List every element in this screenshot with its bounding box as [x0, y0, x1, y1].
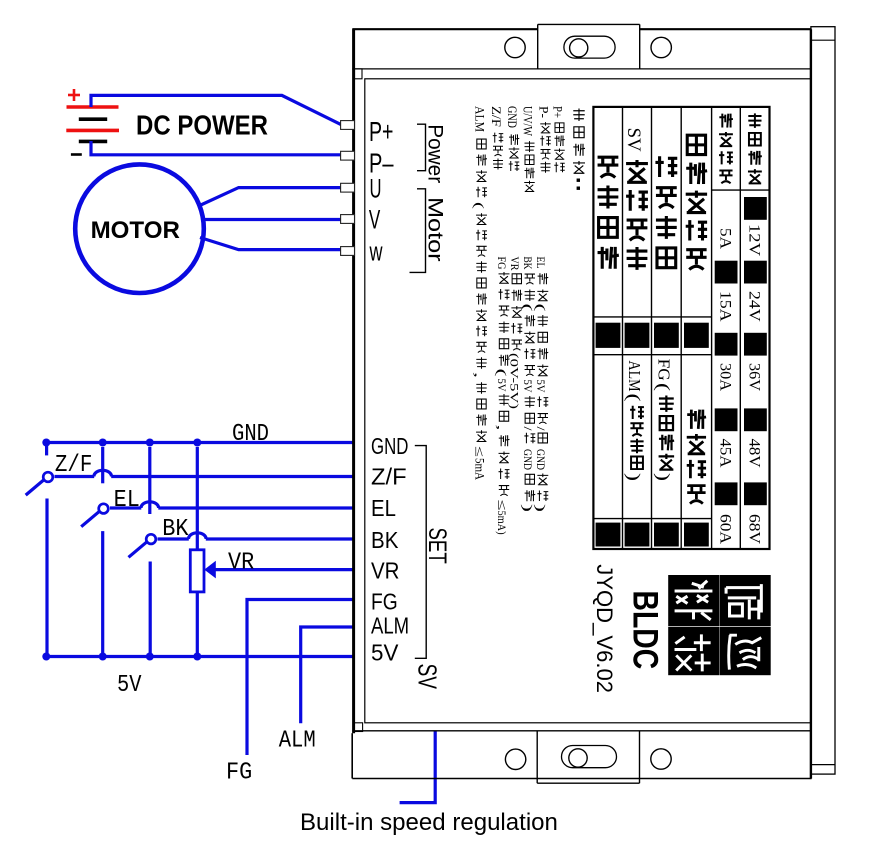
svg-text:15A: 15A: [716, 291, 733, 322]
label FG: [226, 760, 252, 787]
annotation line: BK brake: [520, 257, 535, 513]
svg-text:Built-in speed regulation: Built-in speed regulation: [300, 809, 558, 836]
table cell: ALM run indicator: [623, 361, 644, 482]
svg-text:GND: GND: [521, 449, 535, 470]
svg-text:,: ,: [472, 372, 487, 378]
pin label V: [369, 204, 380, 234]
top slot: [564, 36, 615, 58]
svg-text:24V: 24V: [745, 291, 762, 322]
potentiometer VR lower wire to 5V bus: [196, 592, 199, 657]
table header cell: overvoltage protection (4 hanzi): [598, 157, 619, 268]
pin label VR: [371, 557, 400, 583]
svg-text:5V: 5V: [371, 639, 399, 665]
svg-text:ALM: ALM: [625, 361, 644, 392]
pin label U: [370, 174, 382, 204]
annotation line: P- power negative: [537, 106, 552, 173]
label GND net: [232, 421, 269, 448]
svg-text:5V: 5V: [495, 379, 509, 392]
wire GND bus: [46, 441, 352, 444]
wire battery positive to pin P+: [91, 95, 342, 124]
svg-text:36V: 36V: [745, 363, 762, 392]
label Built-in speed regulation: [300, 809, 558, 836]
svg-text:30A: 30A: [716, 363, 733, 392]
spec table outer border: [593, 107, 769, 549]
pin label 5V: [371, 639, 399, 665]
top-left panel notch: [355, 69, 363, 79]
svg-text:SET: SET: [423, 528, 451, 564]
terminal pin P-: [341, 151, 355, 160]
label Power (rotated): [423, 124, 446, 183]
table header cell: SV built-in speed ctl (SV + 4 hanzi): [623, 128, 648, 270]
top mounting hole left: [505, 37, 525, 57]
switch S3 blade (open): [129, 542, 147, 558]
annotation line: U/V/W motor phases: [521, 106, 536, 191]
switch S1 contact ring: [43, 472, 53, 482]
svg-text:FG: FG: [371, 588, 398, 614]
spec table column lines: [623, 107, 741, 549]
battery negative terminal minus sign: [71, 153, 82, 156]
svg-text:BK: BK: [371, 527, 399, 553]
controller bottom mounting tab: [537, 731, 639, 783]
svg-text:): ): [623, 473, 644, 481]
svg-text:(: (: [495, 369, 510, 377]
wire EL to controller pin: [110, 502, 353, 508]
switch S3 BK: stub from GND bus: [148, 447, 151, 514]
svg-text:EL: EL: [371, 495, 396, 521]
pin label ALM: [371, 613, 409, 639]
junction node J2: [99, 439, 107, 447]
annotation line: EL enable: [533, 257, 548, 513]
switch S2 EL: stub from GND bus: [101, 447, 104, 483]
svg-text:w: w: [369, 236, 383, 266]
bottom band marks (4 cols): [596, 523, 709, 547]
brand logo 2x2 block (white hanzi on black): [668, 575, 771, 675]
annotation line: ALM fault indication: [472, 106, 488, 481]
svg-text:/: /: [521, 427, 535, 432]
svg-text:5V: 5V: [117, 672, 142, 699]
annotation line: GND signal ground: [505, 106, 520, 171]
switch S2 lower wire to 5V bus: [101, 531, 104, 656]
bottom mounting hole right: [651, 749, 671, 769]
annotation line: VR external speed input: [507, 257, 522, 410]
svg-text:68V: 68V: [745, 514, 762, 545]
pin label FG: [371, 588, 398, 614]
wire 5V bus: [46, 655, 352, 658]
svg-text:BK: BK: [521, 257, 535, 270]
svg-text:Z/F: Z/F: [371, 463, 407, 489]
wire motor phase V: [204, 218, 341, 221]
label ALM: [279, 728, 316, 755]
svg-text:SV: SV: [623, 128, 644, 152]
junction node J8: [193, 653, 201, 661]
svg-text:EL: EL: [114, 487, 140, 514]
battery plate 2 short black: [79, 117, 107, 121]
inner label panel: [365, 79, 811, 723]
svg-text:P-: P-: [537, 106, 552, 118]
table header cell: reverse-polarity protection (5 hanzi): [686, 135, 707, 269]
svg-text:GND: GND: [371, 433, 408, 459]
switch S3 contact ring: [146, 534, 156, 544]
junction node J3: [146, 439, 154, 447]
battery plate 3 long red: [66, 129, 119, 133]
pin label BK: [371, 527, 399, 553]
callout wire built-in speed regulation: [400, 732, 436, 803]
pin label Z/F: [371, 463, 407, 489]
svg-text:BLDC: BLDC: [626, 591, 665, 670]
battery plate 4 short black: [79, 140, 107, 144]
svg-text:45A: 45A: [716, 439, 733, 469]
svg-text:≤: ≤: [495, 500, 509, 511]
annotation line: P+ power positive: [551, 106, 566, 172]
middle band marks (4 cols): [596, 323, 709, 348]
switch S1 Z/F: stub from GND bus: [45, 443, 48, 456]
svg-text:GND: GND: [232, 421, 269, 448]
terminal pin P+: [341, 121, 355, 130]
terminal pin V: [341, 215, 355, 224]
bottom slot: [562, 746, 617, 768]
switch S1 lower wire to 5V bus: [45, 499, 48, 657]
svg-text:U: U: [370, 174, 382, 204]
label SET (rotated): [423, 528, 451, 564]
label JYQD_V6.02 (rotated): [592, 564, 617, 693]
label SV (rotated): [413, 664, 443, 690]
label Z/F: [55, 452, 93, 479]
current column marks and values: [715, 228, 738, 545]
label EL: [114, 487, 140, 514]
label Motor (rotated): [423, 197, 446, 262]
svg-text:P+: P+: [369, 116, 394, 147]
svg-text:(: (: [652, 383, 673, 391]
svg-text:Power: Power: [423, 124, 446, 183]
pin label GND: [371, 433, 408, 459]
switch S2 blade (open): [81, 511, 99, 527]
label MOTOR: [91, 217, 180, 244]
DIN rail flange right: [811, 27, 835, 774]
svg-text:/: /: [534, 427, 548, 432]
svg-text:,: ,: [495, 425, 510, 431]
controller top mounting tab: [538, 24, 640, 69]
svg-text:DC POWER: DC POWER: [136, 110, 268, 141]
svg-text:ALM: ALM: [473, 106, 488, 132]
bottom slot screw: [569, 749, 587, 767]
battery plate 1 long red: [67, 105, 119, 109]
svg-text:ALM: ALM: [279, 728, 316, 755]
svg-text:5A: 5A: [716, 228, 733, 250]
terminal pin W: [341, 247, 355, 256]
junction node J6: [99, 653, 107, 661]
spec table bottom band line (left 4 cols): [593, 518, 711, 520]
wire ALM from controller pin: [301, 627, 353, 723]
wire Z/F to controller pin: [55, 470, 353, 476]
table header cell: max current (4 hanzi): [719, 114, 733, 184]
svg-text:SV: SV: [413, 664, 443, 690]
annotation title: wiring instructions (4 hanzi + colon): [573, 108, 585, 189]
svg-text:48V: 48V: [745, 439, 762, 469]
svg-text:): ): [652, 473, 673, 481]
terminal pin U: [341, 183, 355, 192]
svg-text:Motor: Motor: [423, 197, 446, 262]
svg-text:GND: GND: [505, 106, 520, 128]
controller box outer body: [352, 29, 811, 778]
svg-text:JYQD_V6.02: JYQD_V6.02: [592, 564, 617, 693]
wire motor phase U: [198, 188, 341, 207]
svg-text:≤: ≤: [473, 446, 487, 457]
pin label P-: [369, 147, 394, 178]
bracket Power group: [417, 124, 426, 171]
junction node J1: [42, 439, 50, 447]
svg-text:5V: 5V: [521, 380, 535, 393]
table cell: undervoltage protection (4 hanzi): [687, 410, 706, 504]
potentiometer VR wiper arrow: [204, 561, 216, 579]
wire FG from controller pin: [247, 600, 353, 756]
annotation line: Z/F direction: [489, 106, 504, 170]
bracket SET group: [415, 446, 426, 659]
wire VR wiper to controller pin: [215, 568, 353, 571]
svg-text:ALM: ALM: [371, 613, 409, 639]
bracket Motor group: [410, 189, 426, 273]
wire motor phase W: [200, 238, 341, 250]
svg-text:Z/F: Z/F: [489, 106, 504, 127]
svg-text:(: (: [520, 304, 535, 312]
label BK: [162, 516, 189, 543]
junction node J4: [193, 439, 201, 447]
svg-text:(: (: [472, 202, 487, 209]
top slot screw: [570, 39, 588, 57]
switch S3 lower wire to 5V bus: [149, 562, 152, 657]
table header cell: temperature protection (4 hanzi): [655, 156, 677, 267]
svg-text:MOTOR: MOTOR: [91, 217, 180, 244]
switch S2 contact ring: [99, 504, 109, 514]
svg-text:EL: EL: [534, 257, 548, 269]
junction node J7: [146, 653, 154, 661]
bottom-left panel notch: [354, 723, 363, 732]
top mounting hole right: [651, 37, 671, 57]
svg-text:(: (: [623, 394, 644, 402]
svg-text:VR: VR: [228, 550, 254, 577]
table cell: FG speed signal: [652, 359, 674, 481]
motor M1: [75, 164, 204, 293]
annotation line: FG speed signal output: [495, 257, 510, 535]
svg-text:5V: 5V: [534, 380, 548, 393]
svg-text:P+: P+: [551, 106, 566, 118]
svg-text:12V: 12V: [745, 224, 762, 257]
svg-text:VR: VR: [371, 557, 400, 583]
wire BK to controller pin: [158, 533, 353, 539]
spec table middle band lines (left 4 cols): [593, 317, 711, 355]
label 5V net: [117, 672, 142, 699]
svg-text:GND: GND: [534, 449, 548, 470]
pin label EL: [371, 495, 396, 521]
wire GND bus to potentiometer VR: [196, 447, 199, 550]
svg-text:60A: 60A: [716, 514, 733, 545]
svg-text:V: V: [369, 204, 380, 234]
potentiometer VR body: [190, 550, 204, 592]
wire battery negative to pin P-: [91, 141, 341, 155]
bottom mounting hole left: [505, 749, 525, 769]
table header cell: working voltage (4 hanzi): [748, 113, 762, 183]
pin label P+: [369, 116, 394, 147]
label DC POWER: [136, 110, 268, 141]
svg-text:FG: FG: [226, 760, 252, 787]
switch S1 blade (open): [26, 480, 44, 496]
svg-text:FG: FG: [654, 359, 673, 381]
junction node J5: [42, 653, 50, 661]
svg-text:5mA): 5mA): [495, 511, 509, 535]
spec table header divider (voltage/current cols): [712, 189, 770, 191]
svg-text:U/V/W: U/V/W: [521, 106, 536, 137]
svg-text:FG: FG: [495, 257, 509, 270]
battery positive terminal plus sign: [68, 89, 80, 101]
svg-text:): ): [520, 504, 535, 512]
label BLDC (rotated): [626, 591, 665, 670]
svg-text:5mA: 5mA: [473, 458, 488, 481]
voltage column marks and values: [744, 197, 767, 545]
pin label w: [369, 236, 383, 266]
label VR: [228, 550, 254, 577]
